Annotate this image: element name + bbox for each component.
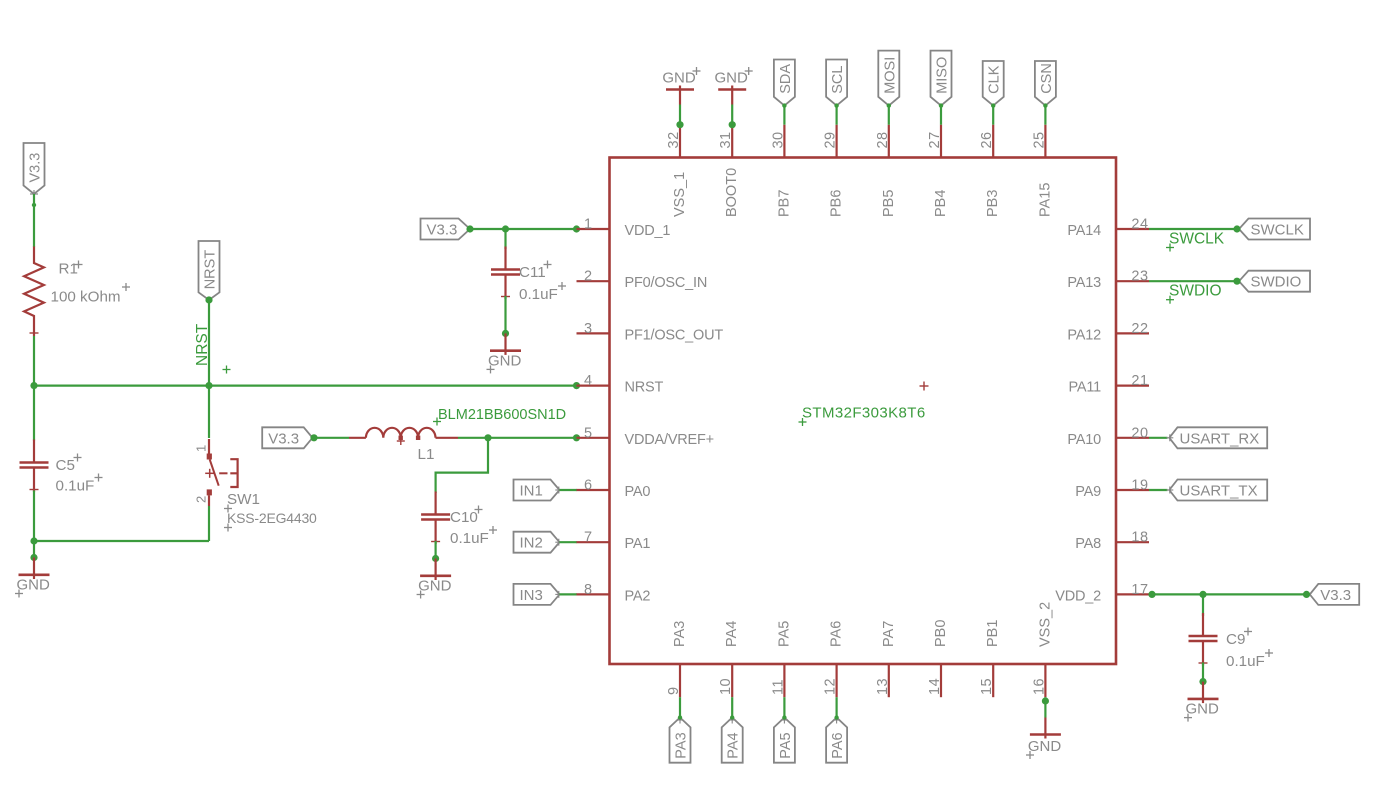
IC pin 32 stub	[679, 125, 681, 158]
pin name PA10	[1067, 432, 1101, 448]
net flag CSN	[1035, 61, 1056, 108]
svg-text:MOSI: MOSI	[882, 57, 898, 94]
pin name PB6	[829, 190, 845, 217]
wire pin 23 to SWDIO	[1149, 280, 1237, 282]
wire GND to pin 32	[676, 105, 683, 129]
svg-text:SWDIO: SWDIO	[1169, 283, 1222, 300]
supply flag V3.3 (at C11)	[421, 219, 471, 240]
svg-text:PF0/OSC_IN: PF0/OSC_IN	[625, 275, 708, 291]
pin name BOOT0	[724, 168, 740, 217]
label R1 value	[51, 283, 131, 305]
svg-text:PB1: PB1	[985, 620, 1001, 647]
net flag MOSI	[878, 51, 899, 108]
wire to C11	[504, 229, 506, 249]
label IC value STM32F303K8T6	[799, 405, 926, 427]
svg-text:GND: GND	[1028, 738, 1062, 755]
svg-text:100 kOhm: 100 kOhm	[51, 288, 121, 305]
svg-text:23: 23	[1131, 269, 1148, 285]
svg-text:GND: GND	[488, 352, 522, 369]
pin name PA7	[881, 621, 897, 647]
junction node NRST mid	[205, 382, 212, 389]
pin number 19	[1131, 478, 1148, 494]
pin number 18	[1131, 530, 1148, 546]
svg-text:L1: L1	[418, 446, 435, 463]
pin number 17	[1131, 582, 1148, 598]
junction V3.3/C11 tip	[466, 225, 473, 232]
svg-text:PB6: PB6	[829, 190, 845, 217]
pin name PA9	[1075, 484, 1101, 500]
pin name PB7	[776, 190, 792, 217]
svg-text:V3.3: V3.3	[427, 222, 458, 239]
supply flag V3.3 (top left)	[24, 143, 45, 198]
net label NRST	[194, 323, 231, 373]
pin name PA5	[776, 621, 792, 647]
svg-text:9: 9	[666, 686, 682, 695]
svg-text:2: 2	[584, 269, 592, 285]
svg-text:V3.3: V3.3	[268, 430, 299, 447]
svg-text:BLM21BB600SN1D: BLM21BB600SN1D	[438, 407, 566, 423]
svg-text:VDDA/VREF+: VDDA/VREF+	[625, 432, 714, 448]
IC pin 8 stub	[577, 593, 610, 595]
net flag PA4	[722, 715, 743, 762]
wire C11 to GND	[504, 296, 506, 333]
ground GND (top, pin 32)	[662, 67, 700, 105]
svg-text:24: 24	[1131, 217, 1148, 233]
svg-text:BOOT0: BOOT0	[724, 168, 740, 217]
junction at IC pin 1	[573, 225, 580, 232]
pin number 5	[584, 425, 592, 441]
net flag IN2	[514, 532, 563, 553]
svg-text:VSS_2: VSS_2	[1037, 602, 1053, 647]
wire pin 20 to USART_RX	[1149, 437, 1168, 439]
net flag SWDIO	[1233, 271, 1310, 292]
svg-text:PA13: PA13	[1067, 275, 1101, 291]
wire C5 to GND junction	[33, 491, 35, 542]
ground GND (under C10)	[417, 555, 452, 599]
junction at IC pin 16	[1042, 697, 1049, 704]
svg-text:CSN: CSN	[1039, 63, 1055, 94]
svg-text:USART_TX: USART_TX	[1180, 483, 1258, 500]
label R1 name	[59, 261, 83, 278]
net flag USART_RX	[1166, 427, 1267, 448]
net flag MISO	[931, 51, 952, 108]
IC pin 2 stub	[577, 280, 610, 282]
wire SDA to pin 30	[783, 106, 785, 125]
wire C10 to GND	[435, 541, 437, 559]
pin number 7	[584, 530, 592, 546]
wire R1 to C5	[33, 336, 35, 441]
net flag PA5	[774, 715, 795, 762]
wire pin 17 to V3.3	[1149, 593, 1307, 595]
pin number 23	[1131, 269, 1148, 285]
svg-text:27: 27	[927, 131, 943, 148]
pin name VDD_2	[1055, 588, 1101, 604]
pin number 31	[718, 131, 734, 148]
svg-text:6: 6	[584, 478, 592, 494]
IC pin 24 stub	[1116, 228, 1149, 230]
IC pin 14 stub	[940, 664, 942, 697]
IC pin 4 stub	[577, 385, 610, 387]
svg-text:4: 4	[584, 373, 592, 389]
svg-text:USART_RX: USART_RX	[1180, 430, 1260, 447]
svg-text:VSS_1: VSS_1	[672, 172, 688, 217]
pin number 20	[1131, 425, 1148, 441]
wire PA6 to pin 12	[835, 697, 837, 717]
svg-text:NRST: NRST	[203, 250, 219, 290]
svg-text:SW1: SW1	[227, 491, 260, 508]
pin number 21	[1131, 373, 1148, 389]
net label SWDIO	[1166, 283, 1222, 304]
net flag PA6	[826, 715, 847, 762]
IC pin 22 stub	[1116, 332, 1149, 334]
svg-text:28: 28	[875, 131, 891, 148]
pin number 8	[584, 582, 592, 598]
wire pin 19 to USART_TX	[1149, 489, 1168, 491]
wire MISO to pin 27	[940, 106, 942, 125]
wire junction to GND	[33, 541, 35, 558]
label C5 name and value	[56, 454, 103, 495]
pin name PA6	[829, 621, 845, 647]
ground GND (bottom left)	[15, 554, 50, 598]
pin number 30	[770, 131, 786, 148]
IC pin 1 stub	[577, 228, 610, 230]
pin number 26	[979, 131, 995, 148]
svg-text:PA6: PA6	[829, 621, 845, 647]
svg-text:C10: C10	[450, 509, 478, 526]
svg-text:30: 30	[770, 131, 786, 148]
net flag USART_TX	[1166, 480, 1267, 501]
svg-text:IN3: IN3	[520, 587, 543, 604]
svg-text:PA10: PA10	[1067, 432, 1101, 448]
IC pin 29 stub	[835, 125, 837, 158]
IC pin 10 stub	[731, 664, 733, 697]
svg-text:PA14: PA14	[1067, 223, 1101, 239]
wire L1 to IC pin 5	[458, 437, 577, 439]
svg-text:18: 18	[1131, 530, 1148, 546]
junction at IC pin 5	[573, 434, 580, 441]
label L1 name	[418, 446, 435, 463]
svg-text:PB7: PB7	[776, 190, 792, 217]
wire CLK to pin 26	[992, 106, 994, 125]
IC pin 21 stub	[1116, 385, 1149, 387]
net flag CLK	[983, 61, 1004, 108]
wire MOSI to pin 28	[888, 106, 890, 125]
wire VDD_2 to C9	[1202, 594, 1204, 616]
pin number 6	[584, 478, 592, 494]
svg-text:PA3: PA3	[674, 732, 690, 758]
svg-text:22: 22	[1131, 321, 1148, 337]
IC pin 18 stub	[1116, 541, 1149, 543]
IC pin 20 stub	[1116, 437, 1149, 439]
wire V3.3 to IC pin 1	[470, 228, 577, 230]
pin name PF1/OSC_OUT	[625, 327, 724, 343]
svg-text:1: 1	[194, 445, 209, 452]
IC pin 19 stub	[1116, 489, 1149, 491]
svg-text:SCL: SCL	[830, 66, 846, 94]
IC U1 STM32F303K8T6 body	[610, 158, 1117, 665]
svg-text:1: 1	[584, 217, 592, 233]
pin name PA4	[724, 621, 740, 647]
svg-text:PA4: PA4	[724, 621, 740, 647]
pin name PA8	[1075, 536, 1101, 552]
svg-text:29: 29	[823, 131, 839, 148]
pin number 13	[875, 678, 891, 695]
IC pin 25 stub	[1044, 125, 1046, 158]
svg-text:PA1: PA1	[625, 536, 651, 552]
svg-text:0.1uF: 0.1uF	[56, 478, 95, 495]
pin number 4	[584, 373, 592, 389]
svg-text:R1: R1	[59, 261, 78, 278]
svg-text:PA7: PA7	[881, 621, 897, 647]
pin number 10	[718, 678, 734, 695]
switch SW1	[205, 439, 237, 506]
net flag NRST	[199, 241, 220, 300]
pin number 3	[584, 321, 592, 337]
svg-text:C9: C9	[1226, 631, 1245, 648]
svg-text:PA5: PA5	[778, 732, 794, 758]
inductor L1	[349, 428, 458, 445]
junction V3.3/L1 tip	[310, 434, 317, 441]
label C9 name and value	[1226, 628, 1273, 671]
svg-text:32: 32	[666, 131, 682, 148]
pin number 28	[875, 131, 891, 148]
IC pin 15 stub	[992, 664, 994, 697]
svg-text:PB4: PB4	[933, 190, 949, 217]
pin name VSS_2	[1037, 602, 1053, 647]
IC pin 5 stub	[577, 437, 610, 439]
pin number 27	[927, 131, 943, 148]
svg-text:PB0: PB0	[933, 620, 949, 647]
wire IN2 to IC pin 7	[560, 541, 578, 543]
pin name PA15	[1037, 183, 1053, 217]
pin number 1	[584, 217, 592, 233]
pin number 12	[823, 678, 839, 695]
wire V3.3 to L1	[314, 437, 349, 439]
pin name PA14	[1067, 223, 1101, 239]
net flag SCL	[826, 60, 847, 108]
svg-text:GND: GND	[1186, 701, 1220, 718]
IC pin 9 stub	[679, 664, 681, 697]
svg-text:20: 20	[1131, 425, 1148, 441]
pin number 2	[584, 269, 592, 285]
svg-text:11: 11	[770, 679, 786, 695]
capacitor C5	[20, 440, 49, 493]
svg-text:NRST: NRST	[625, 380, 664, 396]
pin name VDD_1	[625, 223, 671, 239]
net flag PA3	[670, 715, 691, 762]
IC pin 11 stub	[783, 664, 785, 697]
ground GND (under C9)	[1184, 678, 1219, 722]
svg-text:5: 5	[584, 425, 592, 441]
svg-text:0.1uF: 0.1uF	[450, 530, 489, 547]
IC pin 12 stub	[835, 664, 837, 697]
IC pin 17 stub	[1116, 593, 1149, 595]
junction node VDDA	[484, 434, 491, 441]
label SW1 name	[224, 491, 260, 513]
ground GND (under C11)	[487, 330, 522, 374]
svg-text:PA2: PA2	[625, 588, 651, 604]
IC pin 30 stub	[783, 125, 785, 158]
wire PA4 to pin 10	[731, 697, 733, 717]
pin number 11	[770, 679, 786, 695]
svg-text:15: 15	[979, 678, 995, 695]
IC pin 31 stub	[731, 125, 733, 158]
IC pin 16 stub	[1044, 664, 1046, 697]
svg-text:GND: GND	[715, 70, 749, 87]
svg-text:PA0: PA0	[625, 484, 651, 500]
svg-text:PA9: PA9	[1075, 484, 1101, 500]
label SW1 value	[224, 510, 317, 532]
wire PA5 to pin 11	[783, 697, 785, 717]
svg-text:14: 14	[927, 678, 943, 695]
IC pin 7 stub	[577, 541, 610, 543]
svg-text:16: 16	[1031, 678, 1047, 695]
junction node VDD_2	[1199, 591, 1206, 598]
pin name PA0	[625, 484, 651, 500]
pin name VSS_1	[672, 172, 688, 217]
svg-text:PA4: PA4	[726, 732, 742, 758]
svg-text:GND: GND	[17, 577, 51, 594]
SW1 pin 2 label	[194, 496, 209, 503]
svg-text:SDA: SDA	[778, 64, 794, 94]
pin name PA13	[1067, 275, 1101, 291]
svg-text:3: 3	[584, 321, 592, 337]
junction NRST flag tip	[205, 296, 212, 303]
svg-text:STM32F303K8T6: STM32F303K8T6	[802, 405, 926, 422]
svg-text:7: 7	[584, 530, 592, 546]
svg-text:PA11: PA11	[1068, 380, 1101, 396]
wire NRST to SW1 pin 1	[208, 386, 210, 438]
pin number 22	[1131, 321, 1148, 337]
svg-text:C11: C11	[519, 264, 546, 281]
SW1 pin 1 label	[194, 445, 209, 452]
pin name PF0/OSC_IN	[625, 275, 708, 291]
IC pin 26 stub	[992, 125, 994, 158]
wire NRST vertical	[208, 300, 210, 386]
pin name PA2	[625, 588, 651, 604]
capacitor C10	[421, 492, 450, 545]
IC pin 23 stub	[1116, 280, 1149, 282]
wire pin 16 to GND	[1044, 697, 1046, 717]
IC pin 13 stub	[888, 664, 890, 697]
svg-text:C5: C5	[56, 457, 75, 474]
pin name PA3	[672, 621, 688, 647]
svg-text:PB3: PB3	[985, 190, 1001, 217]
svg-text:10: 10	[718, 678, 734, 695]
svg-text:13: 13	[875, 678, 891, 695]
wire GND to pin 31	[729, 105, 736, 129]
pin name PB4	[933, 190, 949, 217]
IC pin 27 stub	[940, 125, 942, 158]
svg-text:31: 31	[718, 131, 734, 148]
svg-text:12: 12	[823, 678, 839, 695]
wire PA3 to pin 9	[679, 697, 681, 717]
svg-text:21: 21	[1131, 373, 1148, 389]
net flag IN3	[514, 584, 563, 605]
svg-text:VDD_1: VDD_1	[625, 223, 671, 239]
pin name PA1	[625, 536, 651, 552]
capacitor C9	[1189, 613, 1218, 666]
wire bottom to SW1 pin 2	[34, 506, 209, 541]
pin name PA11	[1068, 380, 1101, 396]
svg-text:25: 25	[1031, 131, 1047, 148]
pin number 14	[927, 678, 943, 695]
pin name NRST	[625, 380, 664, 396]
pin name PB0	[933, 620, 949, 647]
svg-text:IN2: IN2	[520, 535, 543, 552]
wire CSN to pin 25	[1044, 106, 1046, 125]
svg-text:V3.3: V3.3	[28, 153, 44, 183]
svg-text:VDD_2: VDD_2	[1055, 588, 1101, 604]
pin number 16	[1031, 678, 1047, 695]
label L1 value BLM21BB600SN1D	[433, 407, 566, 426]
wire VDDA to C10	[436, 438, 488, 493]
svg-text:SWDIO: SWDIO	[1251, 274, 1302, 291]
wire SCL to pin 29	[835, 106, 837, 125]
net label SWCLK	[1166, 231, 1225, 252]
IC pin 3 stub	[577, 332, 610, 334]
svg-text:PB5: PB5	[881, 190, 897, 217]
supply flag V3.3 (at L1)	[262, 427, 312, 448]
svg-text:8: 8	[584, 582, 592, 598]
svg-text:PA5: PA5	[776, 621, 792, 647]
svg-text:17: 17	[1131, 582, 1148, 598]
svg-text:NRST: NRST	[194, 323, 211, 366]
ground GND (top, pin 31)	[715, 67, 753, 105]
pin name PB3	[985, 190, 1001, 217]
pin number 24	[1131, 217, 1148, 233]
svg-text:MISO: MISO	[935, 57, 951, 94]
IC pin 6 stub	[577, 489, 610, 491]
label C10 name and value	[450, 506, 497, 548]
ground GND (pin 16)	[1026, 718, 1061, 760]
svg-text:2: 2	[194, 496, 209, 503]
svg-text:0.1uF: 0.1uF	[1226, 653, 1265, 670]
resistor R1	[24, 247, 44, 337]
svg-text:0.1uF: 0.1uF	[519, 286, 558, 303]
svg-text:PA6: PA6	[830, 732, 846, 758]
junction node VDD_1	[502, 225, 509, 232]
net flag SDA	[774, 60, 795, 108]
junction node NRST-left	[30, 382, 37, 389]
capacitor C11	[491, 247, 520, 300]
pin name VDDA/VREF+	[625, 432, 714, 448]
wire C9 to GND	[1202, 663, 1204, 682]
IC pin 28 stub	[888, 125, 890, 158]
svg-text:CLK: CLK	[987, 65, 1003, 94]
svg-text:GND: GND	[662, 70, 696, 87]
wire pin 24 to SWCLK	[1149, 228, 1237, 230]
svg-text:GND: GND	[418, 578, 452, 595]
svg-text:KSS-2EG4430: KSS-2EG4430	[227, 510, 317, 526]
junction at IC pin 17	[1148, 591, 1155, 598]
svg-text:19: 19	[1131, 478, 1148, 494]
pin name PB5	[881, 190, 897, 217]
wire IN1 to IC pin 6	[560, 489, 578, 491]
net flag IN1	[514, 480, 563, 501]
svg-text:PA3: PA3	[672, 621, 688, 647]
svg-text:SWCLK: SWCLK	[1251, 222, 1304, 239]
svg-text:26: 26	[979, 131, 995, 148]
svg-text:PA12: PA12	[1067, 327, 1101, 343]
svg-text:PF1/OSC_OUT: PF1/OSC_OUT	[625, 327, 724, 343]
pin name PA12	[1067, 327, 1101, 343]
wire IN3 to IC pin 8	[560, 593, 578, 595]
pin number 29	[823, 131, 839, 148]
pin number 15	[979, 678, 995, 695]
label C11 name and value	[519, 261, 566, 304]
svg-text:PA8: PA8	[1075, 536, 1101, 552]
